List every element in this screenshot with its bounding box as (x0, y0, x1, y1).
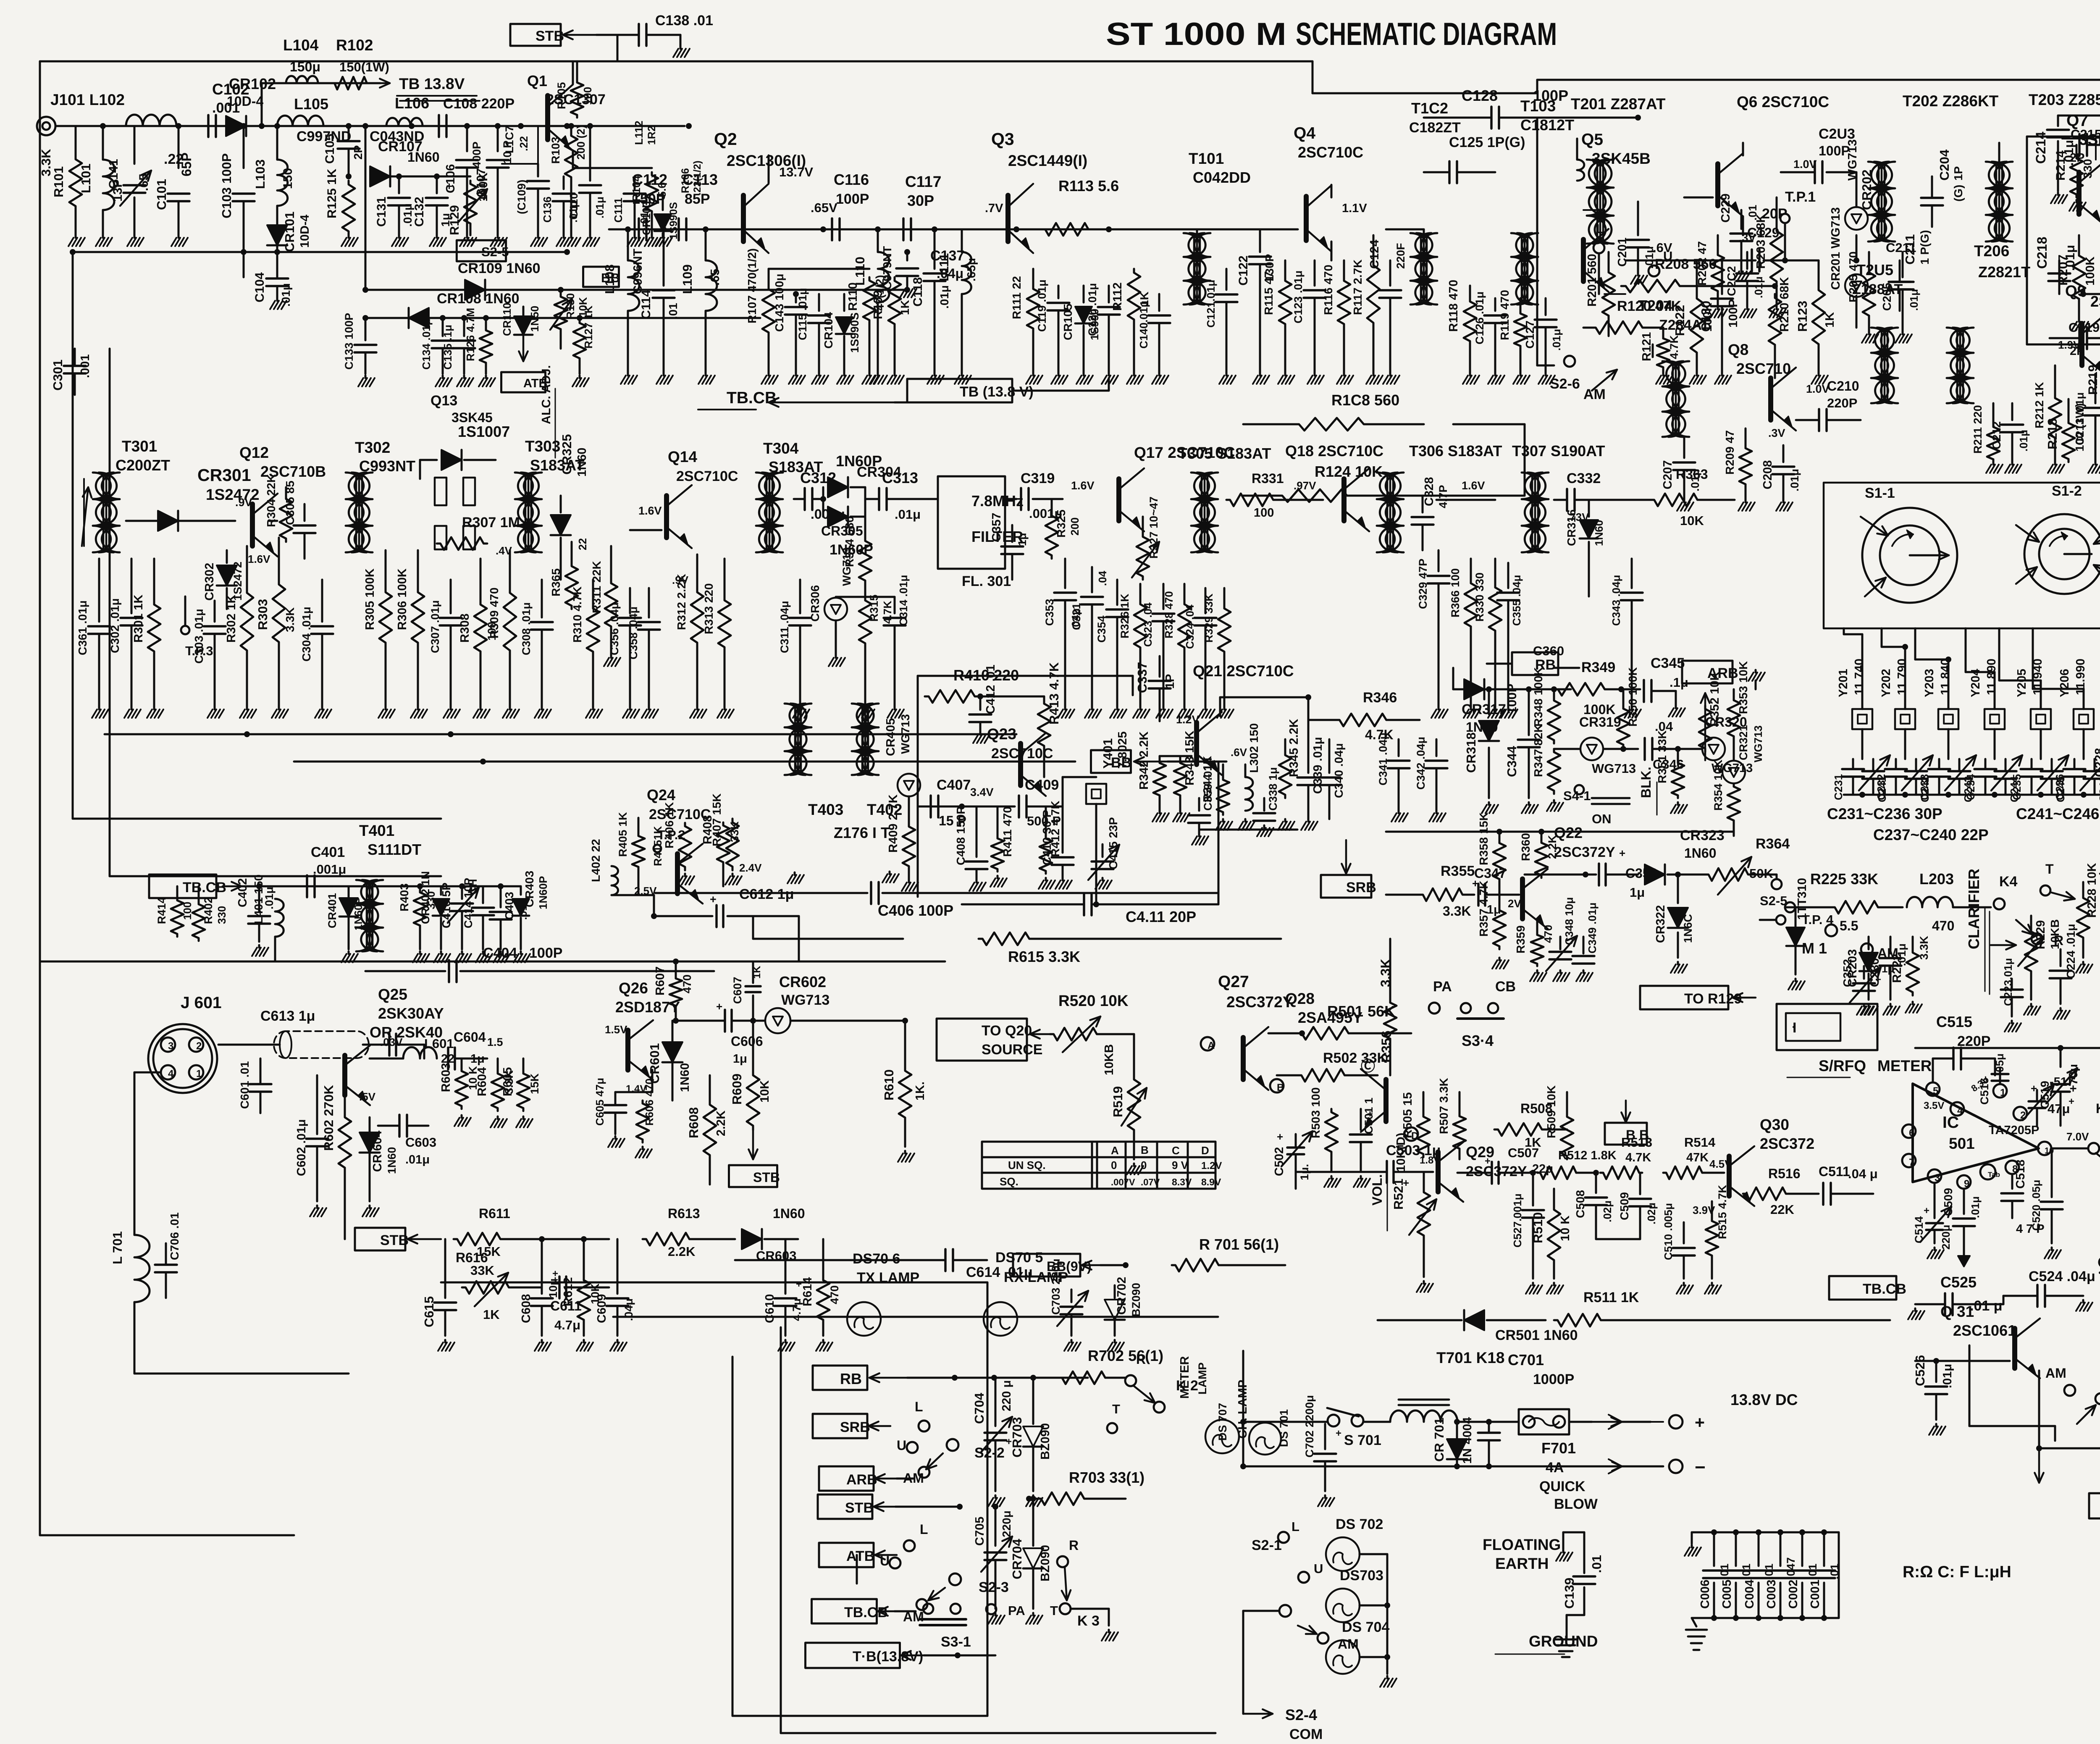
svg-text:DS703: DS703 (1340, 1568, 1383, 1584)
svg-text:100P: 100P (529, 945, 562, 961)
capacitor C603 .01u (0, 0, 0, 0)
svg-text:R605: R605 (501, 1067, 514, 1096)
capacitor C351 1u (0, 0, 0, 0)
box ARB bottom (819, 1466, 913, 1491)
inductor L104 (283, 37, 320, 83)
svg-text:C232: C232 (1875, 774, 1887, 800)
svg-text:65P: 65P (179, 152, 194, 176)
svg-text:1.2V: 1.2V (1201, 1160, 1222, 1171)
svg-text:11.890: 11.890 (1985, 659, 1998, 695)
svg-text:CR318: CR318 (1464, 733, 1478, 773)
transformer T203 (1986, 143, 2013, 242)
capacitor C120 .01u drop (1086, 283, 1120, 384)
svg-text:C135 .1μ: C135 .1μ (441, 325, 454, 370)
svg-text:22K: 22K (1770, 1202, 1794, 1217)
wire BB rail (294, 759, 1075, 764)
svg-text:R608: R608 (686, 1107, 701, 1138)
resistor R115 47 drop (1262, 260, 1294, 384)
svg-text:R103: R103 (549, 137, 562, 164)
grounds q29 (0, 0, 0, 0)
capacitor C605 47u R606 (593, 1078, 656, 1158)
arrow plus line (1592, 1413, 1705, 1432)
svg-text:L302 150: L302 150 (1247, 723, 1260, 773)
potentiometer R129 100K (437, 173, 490, 235)
svg-text:S111DT: S111DT (367, 841, 421, 858)
svg-text:C610: C610 (763, 1294, 777, 1323)
resistor R703 33(1) (1026, 1469, 1144, 1505)
svg-text:1N60: 1N60 (678, 1063, 692, 1092)
svg-text:C301: C301 (50, 360, 65, 391)
svg-text:Q1: Q1 (527, 72, 547, 89)
capacitor C321 .04 drop (1070, 567, 1109, 718)
resistor R313 220 drop (702, 559, 734, 718)
svg-text:2.4V: 2.4V (739, 861, 762, 874)
svg-text:CR305: CR305 (821, 523, 863, 538)
capacitor C510 (1662, 1203, 1695, 1294)
svg-text:.007V: .007V (1111, 1177, 1135, 1187)
diode CR108 1N60 (409, 291, 520, 328)
svg-text:R101: R101 (51, 166, 66, 197)
resistor R510 (1530, 1189, 1572, 1294)
svg-text:C347: C347 (1474, 866, 1507, 881)
svg-text:CR401: CR401 (326, 893, 339, 928)
svg-text:C605 47μ: C605 47μ (593, 1078, 606, 1126)
resistor R611 15K (454, 1206, 609, 1278)
label T203 Z285IT (2029, 91, 2100, 108)
capacitor C520 (2030, 1151, 2063, 1258)
diodes CR401 CR404 (326, 886, 365, 962)
svg-text:CR104: CR104 (822, 312, 835, 349)
svg-text:2SK30AY: 2SK30AY (378, 1005, 444, 1022)
svg-text:13P: 13P (111, 179, 125, 202)
connector J101 (37, 91, 125, 135)
svg-text:C358 .04μ: C358 .04μ (627, 607, 640, 659)
capacitor C602 .01u drop (0, 0, 0, 0)
svg-text:Y201: Y201 (1837, 669, 1850, 697)
svg-text:R302 1K: R302 1K (225, 594, 238, 643)
switch S3-1 (920, 1604, 971, 1650)
svg-text:Q2: Q2 (714, 129, 737, 149)
resistor R122 100K drop (1672, 260, 1714, 384)
resistor R602 270K (321, 1085, 376, 1239)
svg-text:R113 5.6: R113 5.6 (1058, 177, 1119, 194)
label C231-C236 30P (1827, 805, 1942, 822)
svg-text:CR105: CR105 (1061, 304, 1074, 340)
svg-text:+: + (1336, 1428, 1341, 1439)
svg-text:1: 1 (2000, 1087, 2005, 1098)
svg-text:C104: C104 (253, 272, 267, 302)
svg-text:C110: C110 (567, 193, 580, 218)
capacitor C344 100P drop (1504, 684, 1540, 813)
svg-text:CR703: CR703 (1010, 1417, 1024, 1458)
svg-text:R413 4.7K: R413 4.7K (1047, 662, 1061, 725)
capacitor C319 .001u (1021, 470, 1095, 521)
svg-text:C614 .01μ: C614 .01μ (966, 1264, 1033, 1280)
svg-text:R615 3.3K: R615 3.3K (1008, 948, 1080, 965)
svg-text:C402: C402 (236, 878, 249, 907)
capacitor C230 .01u (1868, 937, 1908, 1015)
capacitor C204 1P(G) (1921, 149, 1965, 227)
potentiometer R519 10KB (1102, 1034, 1147, 1174)
svg-text:STB: STB (535, 28, 564, 44)
label CLARIFIER (1965, 869, 1990, 994)
transistor Q12 2SC710B (239, 444, 326, 557)
resistor R610 1K (882, 1021, 927, 1162)
resistor R511 1K (1554, 1290, 1890, 1326)
svg-text:R703 33(1): R703 33(1) (1069, 1469, 1144, 1486)
diode CR109 1N60 (458, 260, 541, 300)
svg-text:150: 150 (281, 168, 295, 189)
svg-text:T·B(13.8V): T·B(13.8V) (853, 1649, 923, 1665)
svg-text:R301 1K: R301 1K (132, 594, 145, 643)
svg-text:DS70 5: DS70 5 (995, 1250, 1043, 1266)
svg-text:.01μ: .01μ (2063, 245, 2077, 271)
svg-text:0: 0 (1141, 1159, 1147, 1171)
diode CR604 (360, 1117, 398, 1216)
svg-text:R 701 56(1): R 701 56(1) (1199, 1236, 1279, 1253)
capacitor C323 .04 drop (1142, 584, 1174, 718)
capacitor C139 .01 (1562, 1532, 1604, 1638)
resistor R225 33K (1785, 870, 1903, 914)
transistor Q24 (634, 844, 703, 904)
box TO R129 (1640, 986, 1756, 1009)
wire strip1 main (55, 123, 692, 129)
diode CR302 1S2472 (203, 550, 270, 609)
capacitor C615 drop (422, 1239, 456, 1351)
diode CR702 BZ090 (1105, 1277, 1142, 1351)
svg-text:L101: L101 (79, 163, 93, 193)
capacitor C135 .1u drop (441, 315, 475, 386)
svg-text:C313: C313 (882, 469, 918, 486)
svg-text:L104: L104 (283, 37, 319, 54)
capacitor C115 .01u drop (796, 288, 830, 384)
svg-text:C609: C609 (595, 1294, 609, 1323)
svg-text:C345: C345 (1651, 655, 1685, 671)
svg-text:R106: R106 (680, 168, 691, 193)
svg-text:7.0V: 7.0V (2066, 1130, 2089, 1143)
inductor L109 drop (680, 229, 722, 384)
svg-text:10K: 10K (1680, 513, 1704, 528)
svg-text:R342 2.2K: R342 2.2K (1137, 731, 1151, 790)
svg-text:C111: C111 (612, 198, 625, 223)
svg-text:470: 470 (681, 974, 693, 993)
svg-text:2SC372Y: 2SC372Y (1554, 844, 1615, 860)
wire Q21 collector (1220, 694, 1311, 739)
svg-text:2SC710C: 2SC710C (991, 746, 1053, 762)
fet Q5 3SK45B (1581, 131, 1651, 294)
svg-text:C1812T: C1812T (1520, 116, 1574, 134)
capacitor C503 1u (1296, 1143, 1441, 1189)
resistor R512 1.8K (1537, 1149, 1617, 1179)
transistor Q4 2SC710C (1294, 124, 1367, 252)
svg-text:R611: R611 (479, 1206, 510, 1221)
capacitor C110 drop (567, 123, 606, 246)
svg-text:C608: C608 (520, 1294, 533, 1323)
svg-text:R116 470: R116 470 (1322, 265, 1335, 315)
diode CR704 BZ090 (1010, 1496, 1052, 1624)
svg-text:CR322: CR322 (1654, 905, 1667, 943)
resistor R408 33K (701, 815, 762, 886)
svg-text:R119 470: R119 470 (1498, 290, 1511, 340)
capacitor C502 1u (1273, 1130, 1312, 1189)
svg-text:R201 560: R201 560 (1585, 254, 1599, 307)
svg-text:C043ND: C043ND (370, 129, 424, 144)
svg-text:ATB: ATB (846, 1548, 874, 1564)
svg-text:CR302: CR302 (203, 563, 216, 601)
diode CR323 1N60 (1645, 827, 1725, 885)
svg-text:C603: C603 (405, 1135, 436, 1150)
svg-text:C348 10μ: C348 10μ (1563, 897, 1575, 945)
svg-text:.5V: .5V (359, 1090, 376, 1103)
potentiometer R229 10KB (1991, 916, 2061, 1015)
svg-text:+: + (552, 1268, 558, 1279)
svg-text:0: 0 (1111, 1159, 1117, 1171)
svg-text:T203 Z2851T: T203 Z2851T (2029, 91, 2100, 108)
resistor R108 560 (1243, 391, 1424, 431)
svg-text:4.7K: 4.7K (1668, 335, 1680, 359)
svg-text:U: U (897, 1438, 906, 1453)
capacitor C213 .01u drop (2074, 374, 2100, 473)
potentiometer R520 10K (1030, 992, 1134, 1052)
capacitor C132 1u drop (412, 176, 452, 246)
ground top right meter (1748, 670, 1765, 689)
svg-text:CR601: CR601 (647, 1043, 662, 1084)
capacitor C509 .02u (1596, 1173, 1658, 1239)
svg-text:BB: BB (601, 271, 620, 285)
capacitor C129 20P (1747, 206, 1819, 271)
capacitor C604 1u (448, 1030, 503, 1069)
svg-text:R209 47: R209 47 (1723, 430, 1736, 475)
inductor L103 150 drop (253, 126, 295, 269)
svg-text:R509 10K: R509 10K (1545, 1085, 1558, 1138)
box STB top (510, 24, 564, 46)
diode CR322 1N6C (1654, 875, 1694, 973)
svg-text:R127 1K: R127 1K (582, 305, 595, 349)
svg-text:R507 3.3K: R507 3.3K (1437, 1078, 1450, 1134)
svg-text:R402: R402 (202, 897, 215, 924)
svg-text:R121: R121 (1640, 332, 1654, 361)
capacitor C332 .01u (1554, 470, 1609, 511)
svg-text:+: + (1367, 1108, 1373, 1120)
resistor R359 470 (1514, 920, 1554, 981)
svg-text:C002: C002 (1787, 1580, 1800, 1609)
svg-text:CR405: CR405 (884, 718, 898, 756)
capacitor C342 drop (1415, 737, 1447, 822)
svg-text:S2-6: S2-6 (1550, 376, 1580, 392)
svg-text:R203 68K: R203 68K (1754, 214, 1768, 269)
svg-text:METER: METER (1877, 1057, 1932, 1074)
svg-text:R348 100K: R348 100K (1532, 667, 1545, 727)
svg-text:2.2K: 2.2K (668, 1244, 696, 1259)
capacitor C102 .001 (208, 81, 249, 137)
svg-text:CR109 1N60: CR109 1N60 (458, 260, 541, 276)
svg-text:C115 .01μ: C115 .01μ (796, 288, 809, 340)
svg-text:R514: R514 (1684, 1135, 1716, 1150)
svg-text:BZ090: BZ090 (1039, 1545, 1052, 1581)
svg-text:.01μ: .01μ (938, 285, 951, 309)
potentiometer VOL R521 (1370, 1133, 1436, 1292)
svg-text:CR403: CR403 (523, 871, 536, 907)
svg-text:150(1W): 150(1W) (339, 60, 389, 74)
svg-text:C996NT: C996NT (631, 249, 645, 294)
capacitor C608 10u drop (520, 1239, 559, 1351)
capacitor C124 .22uF drop (1368, 240, 1407, 384)
diode CR604 1N60 (0, 0, 0, 0)
svg-text:.01μ: .01μ (1908, 289, 1920, 311)
svg-text:2SA495Y: 2SA495Y (1298, 1009, 1362, 1026)
svg-text:C204: C204 (1937, 149, 1952, 181)
svg-text:T302: T302 (355, 439, 390, 456)
svg-text:CR 604: CR 604 (371, 1131, 384, 1172)
svg-text:DS 707: DS 707 (1216, 1403, 1229, 1441)
resistor R356 3.3K (1378, 939, 1396, 1075)
svg-text:R306 100K: R306 100K (396, 568, 409, 630)
svg-text:EARTH: EARTH (1495, 1555, 1549, 1572)
resistor R102 150(1W) (332, 37, 389, 89)
svg-text:C215: C215 (2071, 127, 2100, 142)
capacitor C407 15P (931, 777, 971, 828)
svg-text:R405 1K: R405 1K (617, 812, 629, 857)
svg-text:+: + (1403, 1177, 1409, 1189)
svg-text:S4-1: S4-1 (1563, 788, 1591, 803)
capacitor C611 4.7u (550, 1268, 609, 1332)
filter blocks (435, 478, 475, 549)
svg-text:C356 .04μ: C356 .04μ (608, 602, 621, 655)
svg-text:T103: T103 (1520, 97, 1556, 115)
svg-text:Y203: Y203 (1923, 669, 1936, 697)
relay K2 (1125, 1352, 1198, 1413)
diode CR602 WG713 circ (750, 1008, 908, 1033)
svg-text:4: 4 (168, 1068, 174, 1079)
svg-text:K₁: K₁ (2096, 1101, 2100, 1116)
resistor R503 (1309, 1087, 1341, 1187)
svg-text:C319: C319 (1021, 470, 1055, 486)
resistor R605 15K drop (501, 1058, 541, 1127)
svg-text:30P: 30P (907, 192, 934, 209)
svg-text:ALC. ADJ.: ALC. ADJ. (540, 365, 553, 424)
transistor Q2 2SC1306 (714, 129, 837, 253)
svg-text:220 μ: 220 μ (1000, 1380, 1013, 1411)
svg-text:C235: C235 (2011, 774, 2023, 800)
svg-text:100 (1W): 100 (1W) (2073, 403, 2086, 452)
svg-text:S3·4: S3·4 (1462, 1032, 1494, 1049)
svg-text:R125 1K: R125 1K (325, 168, 339, 218)
label T205 Z188AT (1852, 261, 1903, 297)
svg-text:S1-2: S1-2 (2052, 483, 2082, 499)
transformer T302 C993NT (346, 439, 415, 552)
capacitor C104 .01u (253, 269, 292, 309)
box SRB bottom (813, 1414, 890, 1438)
resistor R366 100 drop (1449, 559, 1480, 718)
label Q21 2SC710C (1193, 662, 1294, 680)
wire lamps left (0, 0, 0, 0)
wire Q26 emitter (615, 1070, 652, 1092)
svg-text:SQ.: SQ. (1000, 1175, 1018, 1188)
transistor Q6 (1684, 143, 1743, 235)
svg-text:C360: C360 (1533, 643, 1564, 658)
resistor R603 10K drop (439, 1058, 479, 1126)
svg-text:1.6V: 1.6V (638, 504, 662, 517)
svg-text:Q4: Q4 (1294, 124, 1315, 142)
transistor Q22 (1508, 869, 1548, 929)
resistor R515 4.7K (1693, 1185, 1729, 1294)
svg-text:R603: R603 (439, 1063, 453, 1092)
svg-text:C: C (1172, 1144, 1180, 1157)
capacitor C329 47P drop (1417, 550, 1449, 718)
svg-text:15K: 15K (528, 1073, 541, 1094)
floating earth (1483, 1532, 1584, 1572)
svg-text:CR319: CR319 (1579, 714, 1621, 730)
capacitor C347 1u (1472, 866, 1519, 917)
svg-text:7: 7 (1909, 1157, 1914, 1168)
svg-text:C138 .01: C138 .01 (655, 13, 713, 29)
inductor L203 (1840, 897, 1991, 933)
svg-text:R229: R229 (2034, 920, 2047, 949)
svg-text:R211 220: R211 220 (1971, 405, 1984, 454)
svg-text:WG713: WG713 (899, 714, 912, 754)
svg-text:LAMP: LAMP (1196, 1363, 1209, 1395)
svg-text:L: L (920, 1522, 928, 1537)
svg-text:1N60: 1N60 (773, 1206, 805, 1221)
resistor R360 2.2K (1519, 832, 1559, 878)
diode CR703 (1010, 1375, 1052, 1506)
svg-text:C006: C006 (1698, 1580, 1712, 1609)
box ATB bottom (819, 1543, 897, 1567)
svg-text:AM: AM (1583, 386, 1606, 402)
resistor R347 82K (1532, 724, 1563, 811)
svg-text:CR203: CR203 (1846, 949, 1859, 987)
resistor R110 47 drop (769, 269, 886, 384)
svg-text:3SK45: 3SK45 (451, 410, 493, 425)
svg-text:U: U (1314, 1561, 1323, 1576)
capacitor C414 10P drop (462, 878, 494, 962)
svg-text:+: + (1924, 1205, 1929, 1216)
capacitor C607 diode CR602 (731, 961, 829, 1021)
svg-text:C338 1μ: C338 1μ (1267, 767, 1279, 811)
wire left bus 1 (70, 249, 441, 819)
lamp DS704 (1326, 1619, 1389, 1674)
diode CR317 1N60 (1462, 679, 1506, 735)
svg-text:C120 .01μ: C120 .01μ (1086, 283, 1099, 336)
pot R616 (0, 0, 0, 0)
arrow TB 13.8V (370, 75, 480, 101)
inductor L111 drop (937, 229, 978, 384)
capacitor C356 .04u drop (608, 588, 641, 718)
svg-text:C607: C607 (731, 977, 744, 1004)
svg-text:R:Ω C: F L:μH: R:Ω C: F L:μH (1903, 1563, 2011, 1581)
svg-text:DS 704: DS 704 (1342, 1619, 1389, 1635)
svg-text:R616: R616 (456, 1250, 488, 1265)
resistor R309 470 drop (488, 550, 519, 718)
resistor R212 1K drop (2033, 365, 2064, 473)
svg-text:R602 270K: R602 270K (321, 1085, 336, 1151)
svg-text:C509: C509 (1618, 1192, 1631, 1220)
transformer T303 S183AT (515, 438, 584, 552)
diode CR603 1N60 (742, 1206, 805, 1263)
pot R616 1K (0, 0, 0, 0)
svg-text:T301: T301 (122, 438, 157, 455)
box RB mid strip (1487, 652, 1558, 675)
svg-text:8.9V: 8.9V (1201, 1177, 1221, 1187)
svg-text:200: 200 (1068, 517, 1081, 536)
svg-text:R312 2.2K: R312 2.2K (675, 574, 688, 630)
transistor Q14 (630, 485, 692, 548)
svg-text:C979NT: C979NT (881, 246, 894, 290)
capacitor C613 1u (260, 1008, 424, 1058)
inductor L102 (126, 115, 184, 167)
label Q25 (370, 986, 444, 1041)
svg-text:WG713: WG713 (781, 992, 829, 1008)
